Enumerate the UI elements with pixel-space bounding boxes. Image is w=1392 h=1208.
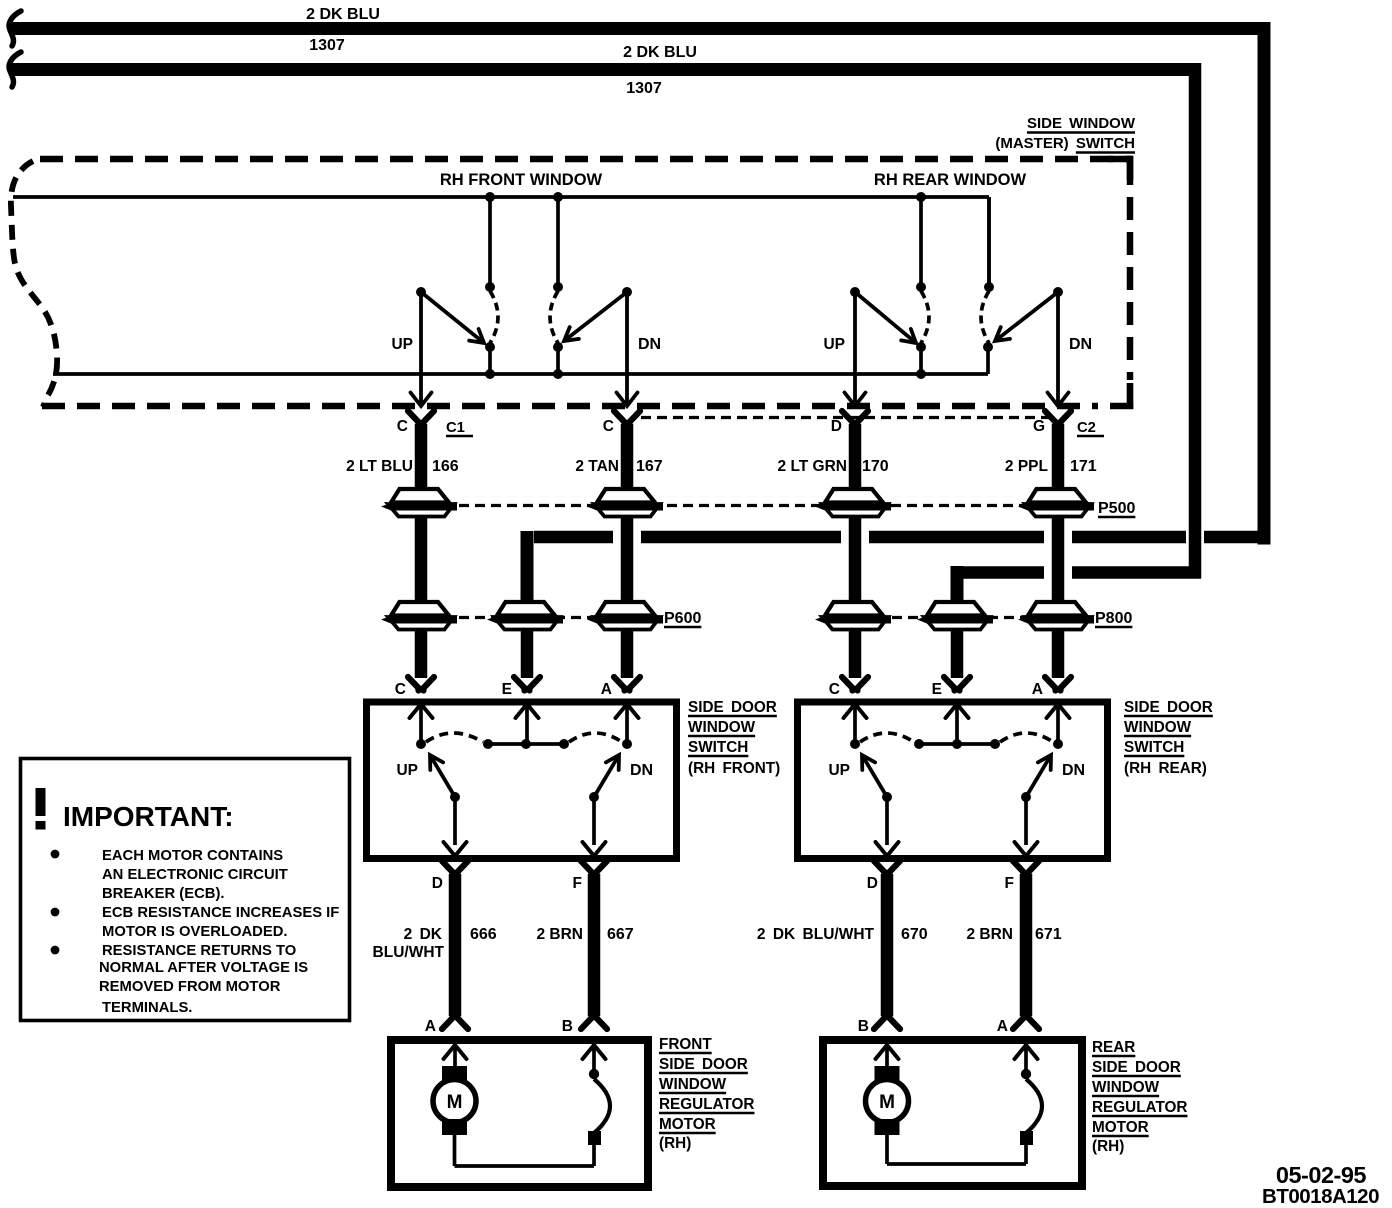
master switch internal top bus line <box>13 197 989 287</box>
front window switch DN contact arm and arrow <box>564 287 638 406</box>
svg-text:UP: UP <box>391 336 413 353</box>
label 166 <box>432 458 459 475</box>
svg-text:REGULATOR: REGULATOR <box>1092 1099 1187 1116</box>
rear door switch UP movable contact <box>862 755 899 856</box>
svg-text:667: 667 <box>607 926 634 943</box>
svg-text:C: C <box>603 418 614 435</box>
connector P800 dashed tie line <box>892 616 1092 619</box>
label F (front switch output) <box>573 875 582 892</box>
svg-text:UP: UP <box>828 762 850 779</box>
label 2 LT GRN <box>778 458 847 475</box>
pin A (front motor) <box>442 1015 468 1029</box>
svg-text:171: 171 <box>1070 458 1097 475</box>
label A (front motor) <box>425 1018 436 1035</box>
pin B (rear motor) <box>874 1015 900 1029</box>
wire 2 DK BLU/WHT 670 <box>881 874 894 1016</box>
svg-text:MOTOR: MOTOR <box>659 1116 716 1133</box>
wire 170 to P800 <box>849 517 862 602</box>
svg-text:670: 670 <box>901 926 928 943</box>
label UP (front door switch) <box>396 762 418 779</box>
label D (rear switch output) <box>867 875 878 892</box>
important note content <box>36 788 340 1016</box>
label A (rear door switch) <box>1032 681 1043 698</box>
svg-text:C: C <box>395 681 406 698</box>
svg-text:B: B <box>562 1018 573 1035</box>
front side door window regulator motor box <box>391 1040 648 1187</box>
wire 2 DK BLU 1307 (lower feed) - horizontal run, right vertical, lower horizontal to rear switch E <box>9 63 1201 600</box>
front door switch DN movable contact <box>583 755 620 856</box>
wire into side door switch at x=855 <box>849 630 862 679</box>
front motor A lead <box>444 1045 467 1068</box>
label UP (front) <box>391 336 413 353</box>
pin D (rear door switch output) <box>874 861 900 875</box>
svg-text:DN: DN <box>638 336 661 353</box>
label 2 TAN <box>575 458 619 475</box>
svg-text:2 DK BLU: 2 DK BLU <box>306 6 380 23</box>
wire 2 LT BLU 166 <box>415 424 428 488</box>
front door switch C arm <box>410 704 433 749</box>
pin A (front door switch) <box>614 677 640 691</box>
pin C of C1 (front down) <box>614 411 640 425</box>
svg-text:G: G <box>1033 418 1045 435</box>
svg-text:2 DK BLU/WHT: 2 DK BLU/WHT <box>757 926 875 943</box>
svg-text:SWITCH: SWITCH <box>1124 739 1184 756</box>
svg-text:1307: 1307 <box>309 37 345 54</box>
label P800 <box>1095 610 1132 627</box>
svg-text:SIDE DOOR: SIDE DOOR <box>688 699 777 716</box>
label C (pin, C1 front down) <box>603 418 614 435</box>
svg-text:(RH FRONT): (RH FRONT) <box>688 760 780 777</box>
svg-text:C2: C2 <box>1077 420 1096 436</box>
grommet P600 - feed wire <box>487 602 563 630</box>
grommet P500 - wire 167 <box>587 489 663 517</box>
wire 167 to P600 <box>621 517 634 602</box>
svg-text:2 BRN: 2 BRN <box>966 926 1013 943</box>
svg-text:RH REAR WINDOW: RH REAR WINDOW <box>874 171 1027 189</box>
svg-text:2 DK BLU: 2 DK BLU <box>623 44 697 61</box>
svg-text:A: A <box>1032 681 1043 698</box>
front window switch UP contact arm and arrow <box>411 287 485 406</box>
svg-text:167: 167 <box>636 458 663 475</box>
svg-text:WINDOW: WINDOW <box>1092 1079 1160 1096</box>
svg-text:F: F <box>1005 875 1014 892</box>
rear side door window switch box <box>798 702 1108 859</box>
front door switch E arm <box>483 704 569 749</box>
label B (front motor) <box>562 1018 573 1035</box>
svg-text:(RH): (RH) <box>659 1135 691 1152</box>
svg-text:UP: UP <box>823 336 845 353</box>
svg-text:B: B <box>858 1018 869 1035</box>
svg-text:(RH): (RH) <box>1092 1138 1124 1155</box>
svg-text:SWITCH: SWITCH <box>688 739 748 756</box>
svg-text:RESISTANCE RETURNS TO: RESISTANCE RETURNS TO <box>102 943 296 959</box>
continuation hook of upper feed wire <box>9 11 21 46</box>
footer date 05-02-95 <box>1276 1162 1366 1188</box>
svg-text:FRONT: FRONT <box>659 1036 712 1053</box>
pin D (front door switch output) <box>442 861 468 875</box>
svg-text:SIDE DOOR: SIDE DOOR <box>1124 699 1213 716</box>
svg-text:A: A <box>601 681 612 698</box>
svg-text:666: 666 <box>470 926 497 943</box>
side window master switch - dashed outline top border <box>40 156 1130 163</box>
wire 171 to P800 <box>1052 517 1065 602</box>
svg-text:NORMAL AFTER VOLTAGE IS: NORMAL AFTER VOLTAGE IS <box>99 960 308 976</box>
side window master switch - dashed outline right border <box>1108 156 1133 380</box>
connector P500 dashed tie line <box>459 504 1094 507</box>
grommet P500 - wire 171 <box>1018 489 1094 517</box>
wire into side door switch at x=421 <box>415 630 428 679</box>
wire 2 LT GRN 170 <box>849 424 862 488</box>
svg-text:SIDE DOOR: SIDE DOOR <box>659 1056 748 1073</box>
front door switch A arm <box>616 704 639 749</box>
label A (rear motor) <box>997 1018 1008 1035</box>
circuit breaker ECB (front motor) <box>588 1069 610 1145</box>
label 2 DK BLU/WHT (666) <box>373 926 445 961</box>
svg-text:C1: C1 <box>446 420 465 436</box>
grommet P800 - feed wire <box>917 602 993 630</box>
svg-text:MOTOR: MOTOR <box>1092 1119 1149 1136</box>
pin C of C1 (front up) <box>408 411 434 425</box>
svg-text:DN: DN <box>1069 336 1092 353</box>
connector C1-C2 dashed tie line <box>641 416 1051 419</box>
label E (front door switch) <box>502 681 512 698</box>
connector P600 dashed tie line <box>459 616 660 619</box>
svg-text:A: A <box>997 1018 1008 1035</box>
svg-text:RH FRONT WINDOW: RH FRONT WINDOW <box>440 171 603 189</box>
svg-text:P800: P800 <box>1095 610 1132 627</box>
label 666 <box>470 926 497 943</box>
front window switch - movable contacts to bottom bus <box>485 342 563 379</box>
svg-text:C: C <box>829 681 840 698</box>
grommet P600 - wire 166 <box>381 602 457 630</box>
svg-text:F: F <box>573 875 582 892</box>
pin D of C2 (rear up) <box>842 411 868 425</box>
master switch internal bottom bus line <box>53 347 988 374</box>
motor M (front) <box>433 1066 476 1135</box>
wire into side door switch at x=1058 <box>1052 630 1065 679</box>
label G (pin, C2) <box>1033 418 1045 435</box>
pin C (rear door switch) <box>842 677 868 691</box>
circuit breaker ECB (rear motor) <box>1020 1069 1042 1145</box>
label D (pin, C2) <box>831 418 842 435</box>
wire into side door switch at x=527 <box>521 630 534 679</box>
pin F (rear door switch output) <box>1013 861 1039 875</box>
rear door switch A arm <box>1047 704 1070 749</box>
front window switch - dashed travel arcs <box>490 291 558 343</box>
label P600 <box>664 610 701 627</box>
wire 166 to P600 <box>415 517 428 602</box>
svg-text:BREAKER (ECB).: BREAKER (ECB). <box>102 886 225 902</box>
label 171 <box>1070 458 1097 475</box>
label B (rear motor) <box>858 1018 869 1035</box>
label 667 <box>607 926 634 943</box>
continuation hook of lower feed wire <box>9 52 21 87</box>
label P500 <box>1098 500 1135 517</box>
wire 2 DK BLU/WHT 666 <box>449 874 462 1016</box>
label RH REAR WINDOW <box>874 171 1027 189</box>
svg-text:C: C <box>397 418 408 435</box>
rear motor A lead <box>1015 1045 1038 1072</box>
wire 2 PPL 171 <box>1052 424 1065 488</box>
pin F (front door switch output) <box>581 861 607 875</box>
label E (rear door switch) <box>932 681 942 698</box>
wire into side door switch at x=957 <box>951 630 964 679</box>
svg-text:WINDOW: WINDOW <box>688 719 756 736</box>
label 2 DK BLU (lower) <box>623 44 697 61</box>
front window switch - fixed contact stubs from top bus <box>485 192 563 292</box>
front door switch UP movable contact <box>430 755 467 856</box>
grommet P500 - wire 170 <box>815 489 891 517</box>
connector name C1 <box>446 420 473 436</box>
label 2 PPL <box>1005 458 1048 475</box>
svg-text:AN ELECTRONIC CIRCUIT: AN ELECTRONIC CIRCUIT <box>102 867 288 883</box>
side window master switch - dashed outline bottom border <box>42 383 1133 409</box>
svg-text:IMPORTANT:: IMPORTANT: <box>63 801 234 832</box>
label DN (front door switch) <box>630 762 653 779</box>
label 670 <box>901 926 928 943</box>
label 2 LT BLU <box>346 458 413 475</box>
pin E (rear door switch) <box>944 677 970 691</box>
svg-text:P600: P600 <box>664 610 701 627</box>
svg-text:(MASTER) SWITCH: (MASTER) SWITCH <box>995 135 1135 152</box>
svg-text:2 PPL: 2 PPL <box>1005 458 1048 475</box>
rear door switch E arm <box>914 704 1000 749</box>
rear window switch UP contact arm and arrow <box>845 287 917 406</box>
svg-text:REMOVED FROM MOTOR: REMOVED FROM MOTOR <box>99 979 281 995</box>
label UP (rear door switch) <box>828 762 850 779</box>
svg-text:E: E <box>932 681 942 698</box>
svg-text:SIDE WINDOW: SIDE WINDOW <box>1027 115 1136 132</box>
label FRONT SIDE DOOR WINDOW REGULATOR MOTOR (RH) <box>659 1036 754 1152</box>
label C (rear door switch) <box>829 681 840 698</box>
label SIDE WINDOW (MASTER) SWITCH <box>995 115 1135 153</box>
label SIDE DOOR WINDOW SWITCH (RH REAR) <box>1124 699 1213 777</box>
grommet P600 - wire 167 <box>587 602 663 630</box>
grommet P500 - wire 166 <box>381 489 457 517</box>
label SIDE DOOR WINDOW SWITCH (RH FRONT) <box>688 699 780 777</box>
wire 2 BRN 667 <box>588 874 601 1016</box>
front motor B lead <box>583 1045 606 1072</box>
wire 2 TAN 167 <box>621 424 634 488</box>
label C (pin, C1 front up) <box>397 418 408 435</box>
svg-text:166: 166 <box>432 458 459 475</box>
svg-text:UP: UP <box>396 762 418 779</box>
label DN (front) <box>638 336 661 353</box>
svg-text:2 LT GRN: 2 LT GRN <box>778 458 847 475</box>
svg-text:D: D <box>867 875 878 892</box>
pin B (front motor) <box>581 1015 607 1029</box>
rear window switch - fixed contact stubs from top bus <box>916 192 994 292</box>
svg-text:BLU/WHT: BLU/WHT <box>373 944 445 961</box>
label 2 DK BLU (upper) <box>306 6 380 23</box>
label D (front switch output) <box>432 875 443 892</box>
svg-text:TERMINALS.: TERMINALS. <box>102 1000 192 1016</box>
pin A (rear door switch) <box>1045 677 1071 691</box>
svg-text:2 LT BLU: 2 LT BLU <box>346 458 413 475</box>
svg-text:MOTOR IS OVERLOADED.: MOTOR IS OVERLOADED. <box>102 924 288 940</box>
important note box <box>21 759 350 1021</box>
label F (rear switch output) <box>1005 875 1014 892</box>
svg-text:2 BRN: 2 BRN <box>536 926 583 943</box>
pin G of C2 (rear down) <box>1045 411 1071 425</box>
label 2 BRN (rear) <box>966 926 1013 943</box>
pin A (rear motor) <box>1013 1015 1039 1029</box>
svg-text:SIDE DOOR: SIDE DOOR <box>1092 1059 1181 1076</box>
svg-text:671: 671 <box>1035 926 1062 943</box>
svg-text:A: A <box>425 1018 436 1035</box>
svg-text:REAR: REAR <box>1092 1039 1135 1056</box>
footer code BT0018A120 <box>1262 1185 1379 1208</box>
svg-text:D: D <box>432 875 443 892</box>
svg-text:P500: P500 <box>1098 500 1135 517</box>
grommet P800 - wire 171 <box>1018 602 1094 630</box>
side window master switch - torn left edge (dashed curve) <box>11 161 57 407</box>
svg-text:DN: DN <box>630 762 653 779</box>
rear door switch C arm <box>844 704 867 749</box>
label A (front door switch) <box>601 681 612 698</box>
rear window switch DN contact arm and arrow <box>995 287 1069 406</box>
svg-text:EACH MOTOR CONTAINS: EACH MOTOR CONTAINS <box>102 848 283 864</box>
front side door window switch box <box>367 702 677 859</box>
svg-text:1307: 1307 <box>626 80 662 97</box>
svg-text:WINDOW: WINDOW <box>659 1076 727 1093</box>
label 1307 (upper) <box>309 37 345 54</box>
connector name C2 <box>1077 420 1104 436</box>
rear door switch DN movable contact <box>1015 755 1052 856</box>
front motor internal return wire <box>455 1135 595 1166</box>
rear motor B lead <box>876 1045 899 1068</box>
label DN (rear) <box>1069 336 1092 353</box>
svg-text:170: 170 <box>862 458 889 475</box>
front door switch dashed travel arcs <box>426 733 622 742</box>
rear door switch dashed travel arcs <box>860 733 1053 742</box>
grommet P800 - wire 170 <box>815 602 891 630</box>
svg-text:M: M <box>879 1092 895 1113</box>
label 671 <box>1035 926 1062 943</box>
label UP (rear) <box>823 336 845 353</box>
wire 2 DK BLU 1307 (upper feed) - horizontal run, right vertical, lower horizontal to front switch E <box>9 22 1271 600</box>
label 2 BRN <box>536 926 583 943</box>
label 1307 (lower) <box>626 80 662 97</box>
label DN (rear door switch) <box>1062 762 1085 779</box>
rear motor internal return wire <box>887 1135 1026 1164</box>
label C (front door switch) <box>395 681 406 698</box>
svg-text:2 TAN: 2 TAN <box>575 458 619 475</box>
pin C (front door switch) <box>408 677 434 691</box>
wire 2 BRN 671 <box>1020 874 1033 1016</box>
svg-text:(RH REAR): (RH REAR) <box>1124 760 1207 777</box>
svg-text:2 DK: 2 DK <box>404 926 443 943</box>
svg-text:DN: DN <box>1062 762 1085 779</box>
label RH FRONT WINDOW <box>440 171 603 189</box>
svg-text:ECB RESISTANCE INCREASES IF: ECB RESISTANCE INCREASES IF <box>102 905 339 921</box>
rear window switch - movable contacts to bottom bus <box>916 342 993 379</box>
svg-text:WINDOW: WINDOW <box>1124 719 1192 736</box>
label 2 DK BLU/WHT (670) <box>757 926 875 943</box>
label REAR SIDE DOOR WINDOW REGULATOR MOTOR (RH) <box>1092 1039 1187 1155</box>
svg-text:D: D <box>831 418 842 435</box>
svg-text:M: M <box>447 1092 463 1113</box>
svg-text:E: E <box>502 681 512 698</box>
rear window switch - dashed travel arcs <box>921 291 989 343</box>
label 170 <box>862 458 889 475</box>
svg-text:BT0018A120: BT0018A120 <box>1262 1185 1379 1208</box>
pin E (front door switch) <box>514 677 540 691</box>
svg-text:REGULATOR: REGULATOR <box>659 1096 754 1113</box>
wire into side door switch at x=627 <box>621 630 634 679</box>
label 167 <box>636 458 663 475</box>
motor M (rear) <box>866 1066 909 1135</box>
rear side door window regulator motor box <box>823 1040 1082 1186</box>
